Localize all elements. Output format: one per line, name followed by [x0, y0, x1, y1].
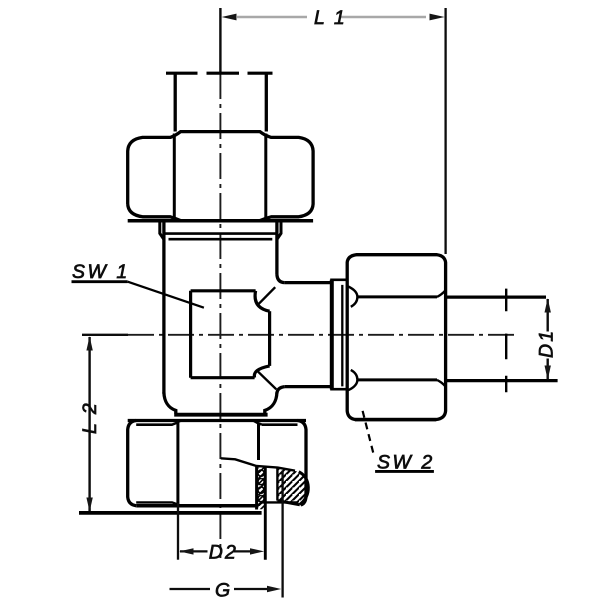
- bottom nut outline right: [298, 421, 307, 505]
- dimension L1 left arrow: [222, 14, 237, 21]
- right tube break line dashed: [505, 289, 507, 393]
- section cut break line: [221, 458, 295, 470]
- section strip left edge: [255, 466, 258, 509]
- bottom nut side face bottom lines: [136, 502, 297, 505]
- section nut region right arc outline: [299, 472, 309, 505]
- dimension L1 right arrow: [430, 14, 445, 21]
- right washer bottom cap: [330, 388, 346, 391]
- right nut chamfer bump top: [348, 287, 357, 307]
- right nut outline: [347, 255, 445, 420]
- top tube wall left: [174, 74, 177, 132]
- dimension G right arrow: [267, 586, 281, 592]
- bottom nut side face top lines: [136, 421, 297, 425]
- branch stub bottom line: [285, 385, 331, 388]
- section hatched nut region: [277, 468, 308, 505]
- right washer top cap: [330, 278, 346, 281]
- dimension D1 line: [547, 299, 549, 380]
- svg-text:D1: D1: [536, 329, 558, 358]
- right nut bottom face thick: [355, 418, 436, 422]
- svg-text:G: G: [215, 580, 230, 600]
- SW1 square right edge: [268, 311, 271, 366]
- section hatched thread strip: [257, 466, 266, 509]
- bottom nut outline left: [128, 421, 137, 506]
- bottom nut bottom face: [136, 504, 256, 508]
- right washer heavy bar: [330, 280, 334, 390]
- dimension L2 line: [88, 337, 90, 511]
- body left edge: [162, 222, 165, 394]
- section thread circles: [258, 470, 264, 502]
- top washer right edge: [277, 222, 281, 240]
- vertical center line: [219, 8, 221, 73]
- top tube wall right: [265, 74, 268, 132]
- right tube wall bottom: [446, 379, 558, 382]
- body right edge upper: [275, 222, 278, 275]
- top washer left edge: [160, 222, 164, 240]
- right nut hex flat bottom: [357, 378, 437, 381]
- right tube wall top: [446, 296, 546, 299]
- SW1 square bottom edge: [191, 376, 255, 379]
- SW1 square SE corner arc: [254, 366, 269, 378]
- horizontal center line: [82, 334, 128, 336]
- body to branch top fillet: [277, 275, 285, 283]
- top nut bottom face: [128, 219, 313, 223]
- SW1 square NE corner arc: [255, 291, 270, 311]
- right nut flat notch top right: [437, 291, 445, 297]
- SW1 NE diagonal tick: [259, 287, 275, 304]
- label SW1 leader line: [128, 282, 204, 308]
- top nut hex flat left: [173, 134, 176, 220]
- branch stub top line: [285, 281, 331, 284]
- top nut outline: [128, 132, 313, 221]
- dimension L2 bottom arrow: [86, 498, 92, 512]
- dimension D2 left arrow: [179, 548, 193, 554]
- dimension D2 right arrow: [250, 548, 264, 554]
- svg-text:L 2: L 2: [79, 401, 101, 434]
- ferrule wall line in section: [276, 467, 278, 500]
- body bottom taper right: [265, 393, 277, 414]
- svg-text:D2: D2: [209, 542, 238, 564]
- right washer inner line: [341, 285, 343, 387]
- svg-text:L 1: L 1: [314, 7, 347, 29]
- body bottom face: [174, 413, 267, 417]
- top washer bottom line: [164, 232, 277, 235]
- dimension L2 top arrow: [86, 336, 92, 350]
- top nut hex flat right: [264, 134, 267, 220]
- bottom nut hex flat right: [257, 423, 260, 460]
- top washer step line: [169, 238, 273, 241]
- top tube break line: [166, 72, 273, 75]
- tube wall line in section: [264, 467, 267, 560]
- dimension D2 line: [180, 550, 252, 552]
- dimension D2 left extension line: [177, 503, 179, 560]
- right nut chamfer bump bottom: [348, 370, 357, 390]
- dimension L2 bottom extension line: [79, 511, 262, 515]
- bottom nut hex flat left: [176, 423, 179, 504]
- label SW2 underline: [375, 470, 434, 473]
- body bottom taper left: [164, 393, 176, 414]
- SW1 square flat left edge: [189, 291, 192, 378]
- section bottom boundary: [277, 501, 299, 505]
- dimension G right extension line: [281, 471, 283, 598]
- dimension D1 bottom arrow: [545, 366, 551, 380]
- SW1 square flat top edge: [191, 289, 256, 292]
- dimension L1 extension line right: [444, 8, 446, 254]
- branch to body bottom fillet: [277, 387, 285, 394]
- right nut flat notch bottom right: [437, 380, 445, 386]
- dimension G line: [170, 588, 270, 590]
- bottom nut top face: [128, 419, 306, 422]
- svg-text:SW 2: SW 2: [377, 452, 435, 474]
- label SW1 underline: [72, 280, 128, 283]
- label SW2 leader line dashed: [363, 411, 374, 456]
- right nut hex flat top: [357, 295, 437, 298]
- dimension L1 line: [237, 16, 426, 19]
- svg-text:SW 1: SW 1: [72, 261, 130, 283]
- dimension D1 top arrow: [545, 298, 551, 312]
- SW1 SE diagonal tick: [258, 371, 277, 389]
